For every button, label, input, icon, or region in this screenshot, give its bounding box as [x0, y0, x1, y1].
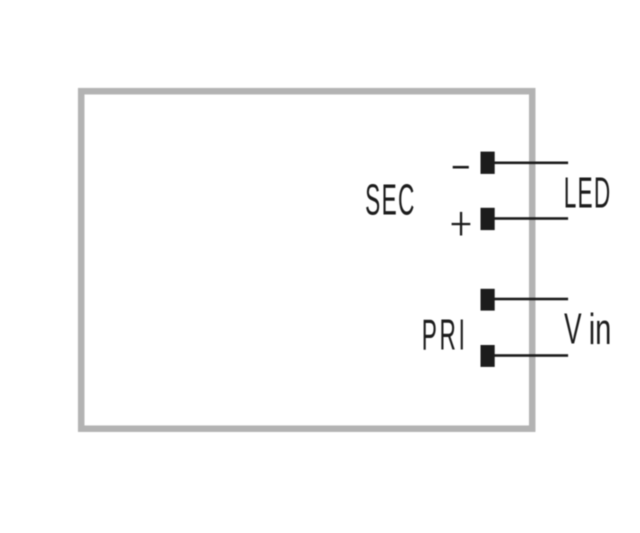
terminal pad PRI lower	[481, 345, 495, 367]
svg-text:LED: LED	[564, 170, 612, 218]
terminal pad SEC minus	[481, 152, 495, 174]
wire SEC minus to LED	[494, 162, 569, 165]
svg-text:in: in	[589, 304, 612, 353]
svg-text:SEC: SEC	[365, 177, 416, 225]
svg-text:PRI: PRI	[422, 312, 468, 360]
wire PRI upper to V in	[494, 298, 569, 301]
plus polarity sign	[452, 212, 471, 236]
terminal pad SEC plus	[481, 208, 495, 230]
terminal pad PRI upper	[481, 289, 495, 311]
label V in	[564, 303, 611, 353]
wire PRI lower to V in	[494, 354, 569, 357]
minus polarity sign	[453, 166, 469, 169]
svg-text:V: V	[564, 303, 581, 353]
wire SEC plus to LED	[494, 217, 569, 220]
driver module outline	[81, 91, 532, 429]
